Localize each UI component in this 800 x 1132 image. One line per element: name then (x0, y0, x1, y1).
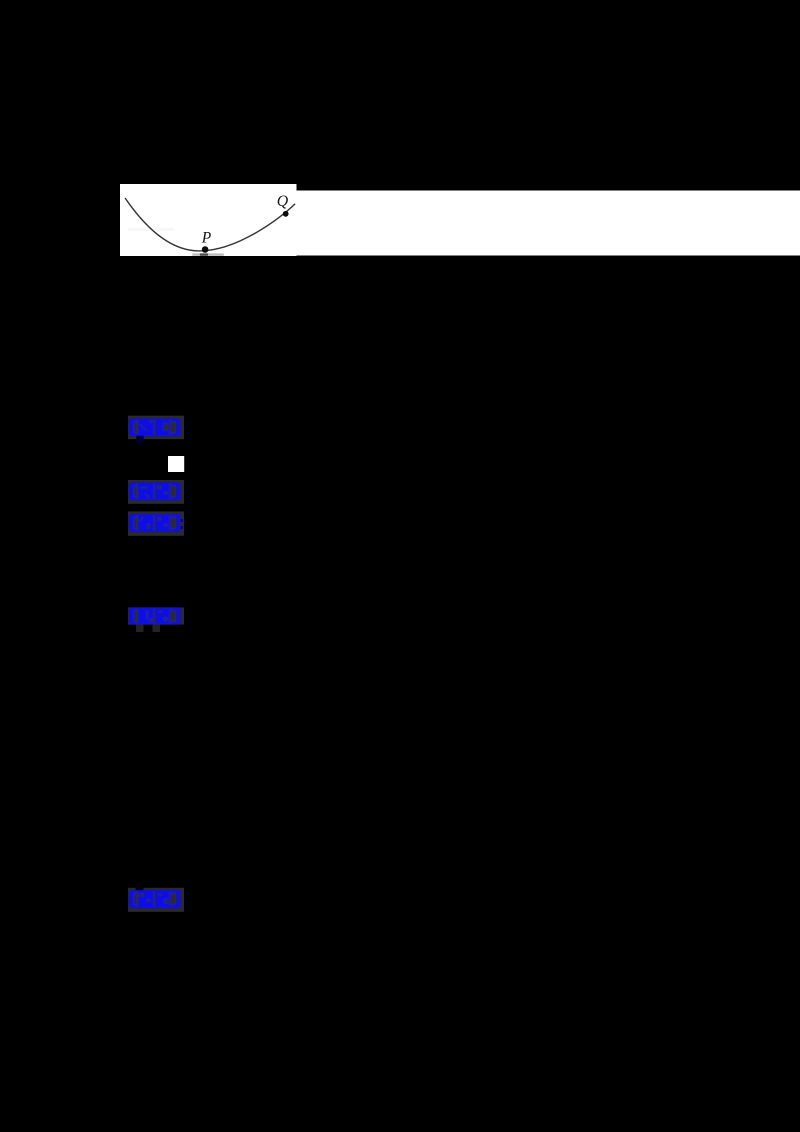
heading 1 kaodian grey box (128, 416, 184, 440)
svg-text:Q: Q (277, 193, 289, 210)
heading 3 fenxi grey box (128, 512, 184, 536)
point Q dot (283, 211, 289, 217)
heading 4 blue glyphs (129, 608, 180, 625)
heading 2 blue glyphs (129, 483, 180, 501)
heading 5 dianping grey box (128, 888, 184, 912)
heading 5 black notch (136, 888, 144, 892)
white square icon (168, 456, 184, 472)
curve (125, 198, 295, 251)
svg-text:P: P (201, 230, 212, 247)
text line white background strip (296, 191, 800, 256)
dark segment of grey bar (200, 253, 208, 255)
point P dot (202, 246, 209, 253)
faint smudge in figure (128, 228, 174, 232)
heading 4 descender blob left (136, 625, 144, 633)
heading 1 navy square artifact (136, 432, 144, 443)
heading 3 colon artifact (181, 519, 184, 522)
heading 5 blue glyphs (129, 890, 180, 908)
grey bar under P (192, 253, 224, 255)
heading 4 jieda grey box (128, 608, 184, 625)
heading 2 zhuanti grey box (128, 480, 184, 504)
figure white background (120, 184, 297, 256)
heading 3 blue glyphs (129, 514, 180, 532)
heading 1 blue glyphs (129, 419, 180, 437)
heading 4 descender blob right (153, 625, 161, 633)
